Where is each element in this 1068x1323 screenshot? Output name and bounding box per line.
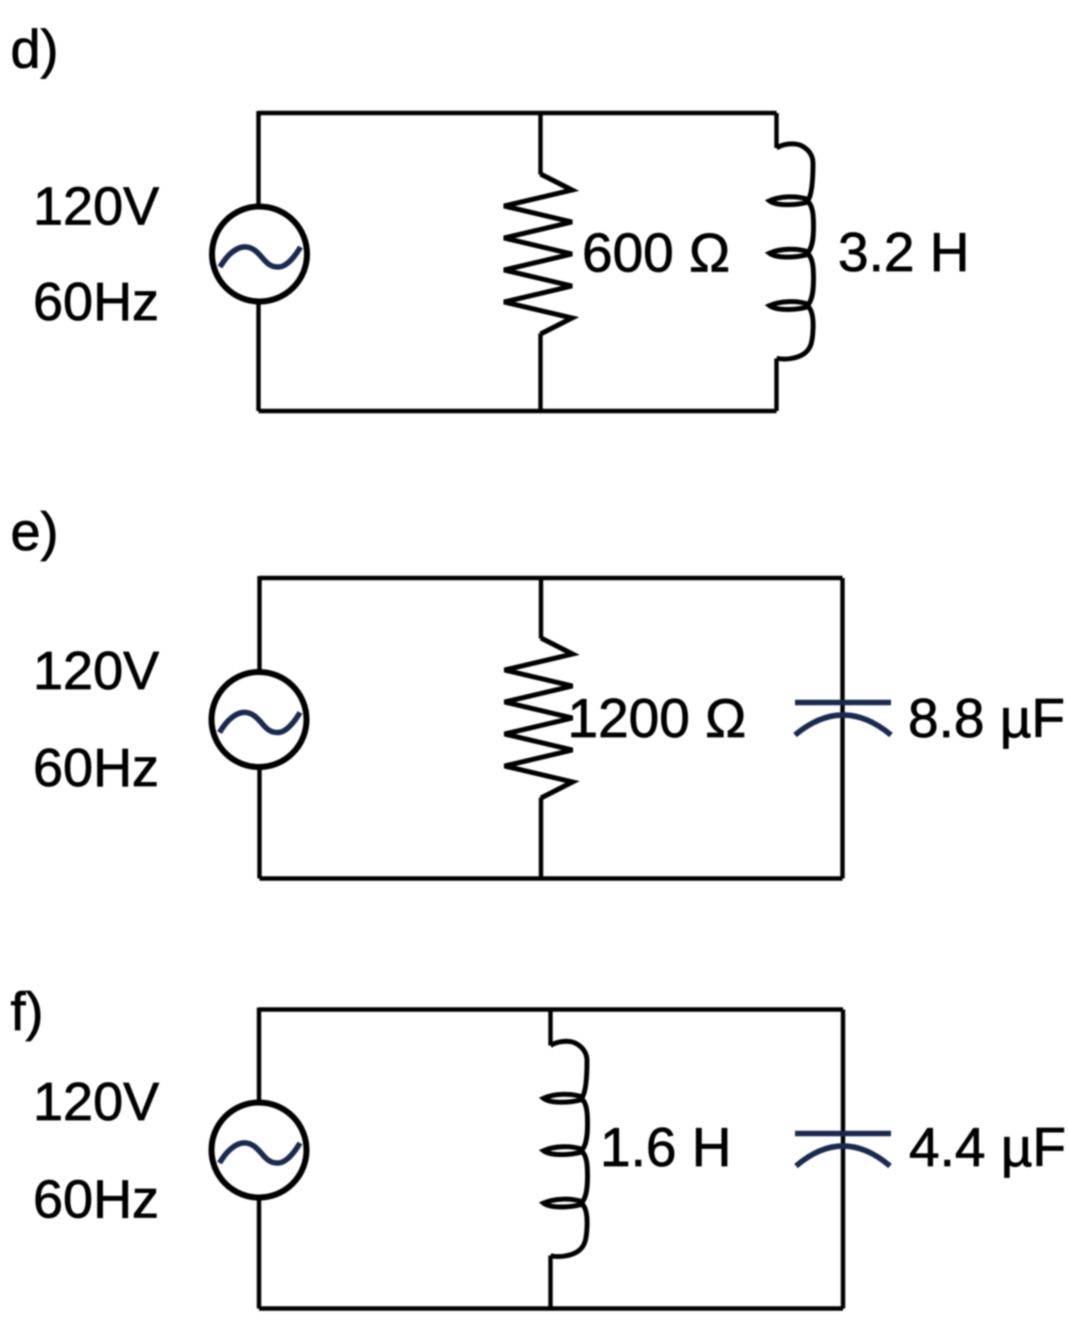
- inductor 3.2 H coil (d): [770, 144, 814, 359]
- wire: right wire bottom stub (d): [774, 359, 778, 412]
- svg-text:60Hz: 60Hz: [33, 1170, 159, 1230]
- wire: left wire top segment (d): [256, 111, 260, 208]
- wire: top wire circuit d: [259, 111, 777, 115]
- AC source circle (e): [212, 672, 307, 767]
- wire: left wire top segment (e): [257, 576, 261, 674]
- svg-text:f): f): [11, 982, 44, 1042]
- capacitor bottom plate arc (f): [796, 1146, 890, 1166]
- AC source sine wave (e): [220, 712, 301, 732]
- svg-text:d): d): [11, 20, 59, 80]
- wire: top wire circuit f: [259, 1007, 843, 1011]
- svg-text:120V: 120V: [33, 641, 159, 701]
- svg-text:120V: 120V: [33, 1072, 159, 1132]
- wire: middle branch bottom stub (e): [539, 798, 543, 879]
- wire: left wire top segment (f): [257, 1008, 261, 1105]
- capacitor top plate (e): [795, 700, 891, 706]
- inductor 1.6 H coil (f): [544, 1041, 588, 1256]
- wire: bottom wire circuit e: [260, 876, 843, 880]
- wire: bottom wire circuit f: [259, 1306, 843, 1310]
- wire: right wire circuit e (continuous through capacitor): [840, 578, 844, 879]
- wire: middle branch bottom stub (f): [548, 1256, 552, 1309]
- svg-text:4.4 µF: 4.4 µF: [909, 1116, 1066, 1178]
- capacitor top plate (f): [795, 1131, 891, 1137]
- wire: middle branch top stub (e): [539, 578, 543, 639]
- wire: middle branch top stub (d): [538, 113, 542, 175]
- resistor 1200 ohm zigzag (e): [505, 638, 573, 798]
- resistor 600 ohm zigzag (d): [504, 174, 572, 334]
- svg-text:600 Ω: 600 Ω: [582, 222, 730, 284]
- AC source sine wave (d): [220, 247, 301, 267]
- svg-text:8.8 µF: 8.8 µF: [908, 687, 1065, 749]
- svg-text:120V: 120V: [33, 177, 159, 237]
- AC source circle (d): [212, 207, 307, 302]
- svg-text:e): e): [11, 502, 59, 562]
- AC source sine wave (f): [220, 1143, 301, 1163]
- svg-text:1200 Ω: 1200 Ω: [568, 687, 747, 749]
- capacitor bottom plate arc (e): [795, 715, 891, 735]
- wire: right wire top stub (d): [774, 113, 778, 148]
- wire: left wire bottom segment (e): [257, 766, 261, 879]
- wire: top wire circuit e: [260, 576, 843, 580]
- wire: middle branch top stub (f): [548, 1010, 552, 1046]
- svg-text:1.6 H: 1.6 H: [600, 1116, 731, 1178]
- wire: middle branch bottom stub (d): [538, 334, 542, 412]
- wire: left wire bottom segment (d): [256, 301, 260, 412]
- svg-text:60Hz: 60Hz: [33, 738, 159, 798]
- wire: right wire circuit f (continuous through capacitor): [841, 1010, 845, 1309]
- svg-text:3.2 H: 3.2 H: [838, 221, 969, 283]
- svg-text:60Hz: 60Hz: [33, 272, 159, 332]
- wire: bottom wire circuit d: [259, 409, 777, 413]
- wire: left wire bottom segment (f): [257, 1197, 261, 1309]
- AC source circle (f): [212, 1103, 307, 1198]
